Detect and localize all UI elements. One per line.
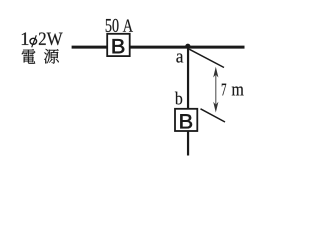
dimension arrow shaft [215,71,217,108]
junction node dot a [185,44,190,49]
source label text "1" [22,32,29,44]
dimension tick top (from node a) [189,49,224,67]
node label a [176,53,183,62]
source label kanji DEN (electric) [22,49,36,64]
dimension value "7" [222,84,226,96]
breaker B2 box [175,109,197,131]
dimension arrowhead up [213,67,218,78]
dimension tick bottom (from breaker b) [201,109,226,122]
breaker B2 letter [180,114,192,128]
breaker B1 letter [113,39,125,53]
source label text "2W" [39,32,63,45]
dimension arrowhead down [213,102,218,113]
breaker B1 rating text "50" [106,19,119,32]
source label kanji GEN (source) [44,49,59,64]
source label: phi symbol stem [32,35,37,47]
wire: horizontal feeder [72,46,245,49]
dimension unit "m" [232,86,244,95]
wire: vertical branch from node a [187,47,189,156]
breaker B1 rating unit "A" [123,19,133,31]
node label b [175,92,182,105]
breaker B1 box [107,34,130,56]
source label: phi symbol bowl [30,38,37,44]
